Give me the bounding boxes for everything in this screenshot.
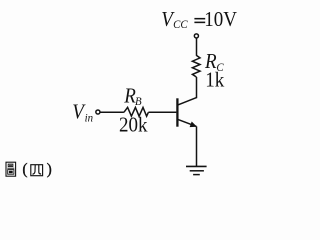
svg-text:): ) <box>47 161 52 178</box>
svg-text:20k: 20k <box>119 114 148 137</box>
svg-text:1k: 1k <box>205 68 225 91</box>
svg-text:in: in <box>85 112 94 125</box>
svg-text:10V: 10V <box>204 8 237 31</box>
svg-text:R: R <box>123 85 136 108</box>
svg-text:B: B <box>135 95 142 108</box>
svg-text:CC: CC <box>173 19 188 32</box>
svg-text:(: ( <box>22 161 27 178</box>
